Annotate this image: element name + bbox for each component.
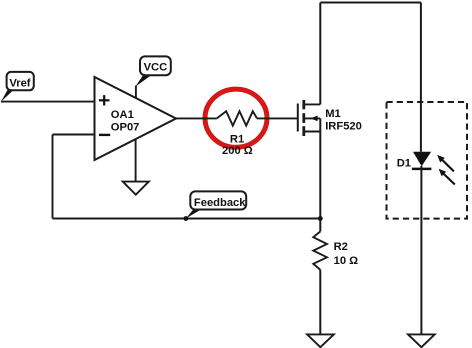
transistor M1 body lead with arrow <box>304 116 320 122</box>
wire M1 drain to top rail <box>319 3 321 105</box>
wire LED to ground <box>420 166 422 334</box>
wire LED branch from top rail <box>420 3 422 152</box>
LED emission arrow 2 <box>439 169 455 185</box>
svg-text:D1: D1 <box>397 158 411 170</box>
transistor M1 source lead <box>304 131 320 133</box>
transistor M1 channel segments <box>302 100 305 136</box>
svg-text:OA1: OA1 <box>111 109 134 121</box>
op-amp OA1 body <box>95 77 177 160</box>
svg-text:10 Ω: 10 Ω <box>334 255 359 267</box>
dashed enclosure box <box>387 102 468 219</box>
svg-text:Vref: Vref <box>9 77 30 89</box>
svg-text:R1: R1 <box>230 133 244 145</box>
flag Vref <box>1 72 34 102</box>
svg-text:R2: R2 <box>334 241 348 253</box>
wire R2 to ground <box>319 270 321 334</box>
svg-text:M1: M1 <box>325 108 341 120</box>
flag Feedback <box>186 191 246 218</box>
wire Vref to op-amp noninverting input <box>1 101 95 103</box>
svg-text:200 Ω: 200 Ω <box>222 145 253 157</box>
LED emission arrow 1 <box>437 155 454 172</box>
op-amp plus sign <box>99 95 110 105</box>
svg-text:OP07: OP07 <box>111 121 140 133</box>
transistor M1 drain lead <box>304 103 320 105</box>
op-amp minus sign <box>99 134 110 136</box>
ground below R2 <box>307 334 334 347</box>
wire feedback vertical <box>52 135 54 219</box>
wire inverting input <box>53 134 95 136</box>
transistor M1 gate bar <box>297 104 299 132</box>
svg-text:IRF520: IRF520 <box>325 121 362 133</box>
wire top rail <box>320 2 421 4</box>
wire R1 to gate <box>257 117 298 119</box>
highlight circle around R1 <box>205 89 267 147</box>
resistor R1 <box>217 111 257 125</box>
ground op-amp <box>123 182 149 195</box>
wire op-amp V- pin <box>135 139 137 181</box>
flag VCC <box>135 56 171 86</box>
resistor R2 <box>313 231 327 270</box>
wire M1 body/source down to node <box>319 118 321 231</box>
ground below LED branch <box>408 334 435 347</box>
LED D1 triangle <box>413 152 431 166</box>
junction source R2 node <box>318 216 323 221</box>
wire feedback horizontal <box>53 218 321 220</box>
junction feedback flag node <box>184 216 189 221</box>
svg-text:VCC: VCC <box>144 62 168 74</box>
svg-text:Feedback: Feedback <box>194 197 246 209</box>
wire VCC pin <box>135 86 137 99</box>
LED D1 cathode bar <box>412 168 432 171</box>
wire op-amp output <box>176 117 217 119</box>
